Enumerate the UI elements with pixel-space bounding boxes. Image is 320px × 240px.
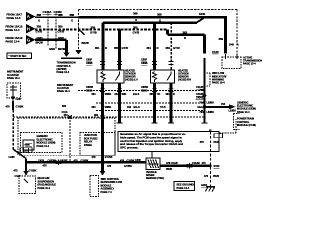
svg-text:350: 350 — [114, 46, 119, 50]
svg-text:C427: C427 — [15, 175, 22, 178]
svg-text:S40: S40 — [229, 43, 234, 47]
svg-text:FROM 15A10: FROM 15A10 — [6, 24, 23, 28]
svg-text:362: 362 — [94, 114, 99, 117]
svg-text:C281: C281 — [23, 151, 29, 153]
svg-text:563: 563 — [62, 105, 67, 108]
svg-text:PK/B: PK/B — [166, 168, 172, 171]
svg-text:C434E: C434E — [196, 96, 204, 99]
svg-text:413: 413 — [64, 114, 69, 117]
svg-text:R: R — [184, 36, 186, 40]
svg-text:GY/B: GY/B — [36, 29, 43, 33]
svg-text:PAGE 10-4: PAGE 10-4 — [57, 90, 70, 93]
svg-text:476: 476 — [43, 164, 48, 167]
svg-text:T/LB: T/LB — [160, 106, 166, 109]
svg-text:478: 478 — [6, 106, 11, 109]
svg-text:C113: C113 — [62, 111, 68, 114]
svg-text:G204: G204 — [201, 184, 208, 187]
svg-text:368: 368 — [37, 13, 42, 17]
svg-text:C4W: C4W — [135, 159, 141, 162]
svg-text:C112F: C112F — [171, 162, 179, 165]
svg-text:GY/BK: GY/BK — [105, 156, 113, 159]
svg-text:C287: C287 — [16, 98, 23, 101]
svg-text:E1LS: E1LS — [134, 106, 141, 109]
svg-text:342: 342 — [114, 93, 119, 96]
svg-text:T/F: T/F — [157, 93, 161, 96]
svg-text:GY/R: GY/R — [173, 46, 180, 50]
svg-text:361: 361 — [146, 46, 151, 50]
svg-text:PAGE 10-4: PAGE 10-4 — [7, 77, 20, 80]
svg-text:S442: S442 — [214, 165, 220, 168]
svg-text:S4A2: S4A2 — [197, 106, 204, 109]
svg-text:FROM 15A10: FROM 15A10 — [6, 36, 23, 40]
svg-text:364: 364 — [91, 106, 96, 109]
svg-text:359: 359 — [58, 25, 63, 29]
svg-text:A: A — [237, 43, 239, 47]
svg-text:LB/BK: LB/BK — [207, 111, 215, 114]
svg-text:361: 361 — [165, 93, 170, 96]
svg-text:R: R — [105, 46, 107, 50]
svg-text:GY/R: GY/R — [122, 46, 129, 50]
svg-text:GND: GND — [37, 36, 43, 40]
svg-text:479: 479 — [91, 156, 96, 159]
svg-text:GY/B: GY/B — [133, 31, 140, 35]
svg-text:PAGE 13-4: PAGE 13-4 — [6, 28, 20, 32]
svg-text:476: 476 — [202, 162, 207, 165]
svg-text:C112M: C112M — [192, 162, 200, 165]
svg-text:363: 363 — [183, 30, 188, 34]
svg-text:PAGE 13-4: PAGE 13-4 — [7, 16, 21, 20]
svg-text:GPC process.: GPC process. — [120, 146, 139, 150]
svg-text:368: 368 — [58, 13, 63, 17]
svg-text:GEM: GEM — [25, 145, 30, 147]
svg-text:794: 794 — [199, 111, 204, 114]
svg-text:476: 476 — [107, 165, 112, 168]
svg-text:GY/BK: GY/BK — [16, 106, 24, 109]
svg-text:359: 359 — [37, 25, 42, 29]
svg-text:C123: C123 — [212, 50, 219, 54]
svg-text:PK/B: PK/B — [213, 175, 219, 178]
svg-text:GY/B: GY/B — [90, 31, 97, 35]
svg-text:BK/W: BK/W — [58, 47, 66, 51]
svg-text:C433E: C433E — [60, 159, 68, 162]
svg-text:LB/BK: LB/BK — [229, 110, 237, 113]
svg-text:342: 342 — [127, 106, 132, 109]
svg-text:C88D: C88D — [141, 89, 148, 92]
svg-text:GY/B: GY/B — [58, 29, 65, 33]
svg-text:C433W: C433W — [48, 159, 57, 162]
svg-text:475: 475 — [13, 169, 18, 172]
svg-text:FROM 15A7: FROM 15A7 — [7, 13, 23, 17]
svg-text:C88B: C88B — [86, 62, 93, 65]
svg-text:476: 476 — [120, 159, 125, 162]
svg-text:W/BK: W/BK — [105, 106, 112, 109]
svg-text:(HO2S) RH: (HO2S) RH — [178, 79, 191, 82]
svg-text:GND: GND — [49, 47, 55, 51]
svg-text:PAGE 13-4: PAGE 13-4 — [57, 71, 70, 74]
svg-text:* START ID 5EC: * START ID 5EC — [9, 55, 27, 58]
svg-text:794: 794 — [199, 102, 204, 105]
svg-text:PAGE 14-1: PAGE 14-1 — [37, 145, 50, 148]
svg-text:PAGE 13-4: PAGE 13-4 — [243, 63, 256, 66]
svg-text:W/BK: W/BK — [105, 93, 112, 96]
svg-text:GY/BK: GY/BK — [127, 159, 135, 162]
svg-text:GY/BK: GY/BK — [81, 159, 89, 162]
svg-text:LB/BK: LB/BK — [207, 102, 215, 105]
svg-text:794: 794 — [199, 89, 204, 92]
svg-text:(HO2S) LH: (HO2S) LH — [125, 79, 138, 82]
svg-text:476: 476 — [200, 141, 205, 144]
svg-text:364: 364 — [91, 93, 96, 96]
svg-text:GY/BK: GY/BK — [124, 165, 132, 168]
svg-text:350: 350 — [165, 46, 170, 50]
svg-text:PAGE 7-1: PAGE 7-1 — [101, 191, 113, 194]
svg-text:BK/W: BK/W — [82, 41, 90, 45]
svg-text:W/R: W/R — [122, 93, 127, 96]
svg-text:368: 368 — [70, 13, 75, 17]
svg-text:368: 368 — [157, 12, 162, 16]
svg-text:360: 360 — [149, 93, 154, 96]
svg-text:S241: S241 — [199, 12, 206, 16]
svg-text:476: 476 — [204, 175, 209, 178]
svg-text:476: 476 — [74, 159, 79, 162]
svg-text:PAGE 14-4: PAGE 14-4 — [177, 187, 190, 190]
svg-text:GY/BK: GY/BK — [29, 169, 37, 172]
svg-text:SENSOR (VSS): SENSOR (VSS) — [146, 177, 164, 180]
svg-text:MODULE (PCM): MODULE (PCM) — [237, 124, 256, 127]
svg-text:368: 368 — [133, 11, 138, 15]
svg-text:PK/B: PK/B — [214, 141, 220, 144]
svg-text:361: 361 — [95, 46, 100, 50]
svg-text:PAGE 41-2: PAGE 41-2 — [38, 187, 51, 190]
svg-text:C133A: C133A — [43, 10, 53, 14]
svg-text:359: 359 — [133, 25, 138, 29]
svg-text:C88D: C88D — [86, 89, 93, 92]
svg-text:359: 359 — [91, 25, 96, 29]
svg-text:GND: GND — [58, 36, 64, 40]
svg-text:R: R — [173, 93, 175, 96]
svg-text:E1LS: E1LS — [133, 93, 140, 96]
svg-text:C88B: C88B — [141, 62, 148, 65]
svg-text:C433: C433 — [38, 159, 45, 162]
svg-text:R: R — [157, 46, 159, 50]
svg-text:G: G — [27, 37, 31, 42]
svg-text:369: 369 — [219, 37, 224, 41]
svg-text:794: 794 — [221, 103, 226, 106]
svg-text:PAGE 13-4: PAGE 13-4 — [6, 39, 20, 43]
svg-text:BK/W: BK/W — [36, 41, 44, 45]
svg-text:PANEL: PANEL — [84, 144, 93, 147]
svg-text:H: H — [27, 26, 30, 31]
svg-text:PAGE 10-4: PAGE 10-4 — [212, 82, 225, 85]
svg-text:C280: C280 — [9, 156, 16, 159]
